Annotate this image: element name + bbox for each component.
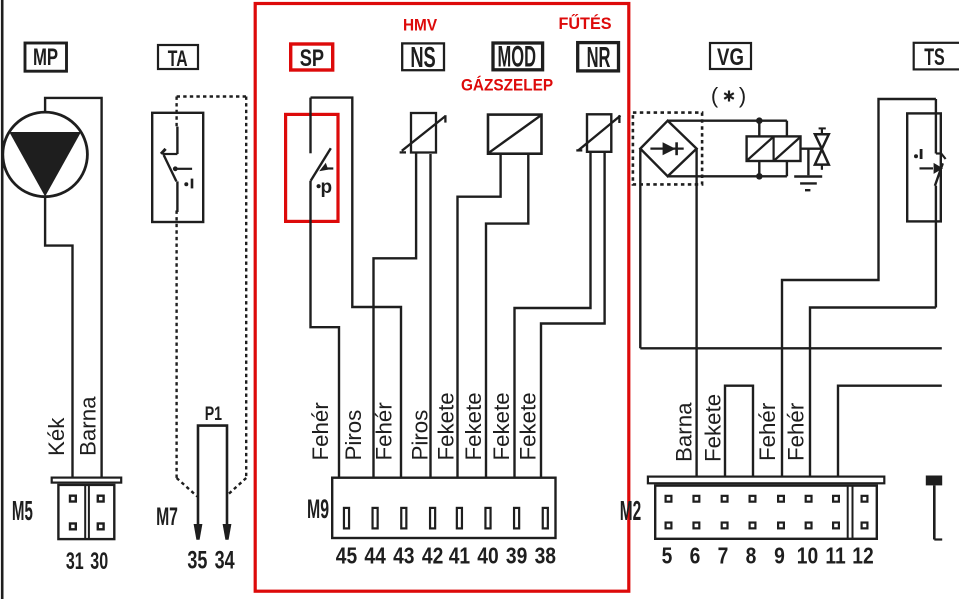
svg-text:Fekete: Fekete: [489, 392, 514, 460]
wire SP bottom to pin 45: [311, 181, 340, 477]
pump MP rotor triangle: [9, 132, 81, 197]
svg-text:9: 9: [774, 543, 785, 569]
stub bottom end to coil: [786, 162, 788, 177]
dashed boundary TA left funnel: [177, 478, 198, 497]
svg-text:Fehér: Fehér: [784, 402, 809, 461]
red frame around SP/NS/MOD/NR: [255, 4, 629, 592]
terminal cap (bottom right): [926, 476, 942, 486]
svg-text:7: 7: [718, 543, 729, 569]
svg-text:Fekete: Fekete: [515, 392, 540, 460]
connector M2 contact r2p7: [722, 523, 728, 529]
sensor NS body: [411, 113, 436, 153]
svg-text:P1: P1: [205, 403, 222, 425]
probe P1 bracket: [198, 426, 227, 527]
switch TS actuator line: [920, 167, 934, 169]
ground stub: [807, 149, 809, 176]
connector M9 body: [332, 478, 555, 538]
valve bottom triangle: [815, 149, 829, 164]
caption (*) star: [728, 91, 730, 102]
switch TS actuator arrowhead: [934, 163, 943, 174]
svg-text:Fekete: Fekete: [461, 392, 486, 460]
sensor NR diagonal tick: [618, 115, 620, 123]
svg-text:Kék: Kék: [44, 417, 69, 456]
terminal stem: [933, 485, 936, 539]
ground bar 1: [794, 175, 822, 178]
connector M2 contact r2p11: [833, 523, 839, 529]
switch TA pivot dot: [173, 166, 178, 171]
connector M2 contact r1p12: [862, 496, 868, 502]
connector M2 top bar: [648, 477, 884, 484]
connector M2 contact r1p9: [778, 496, 784, 502]
svg-text:M2: M2: [620, 495, 641, 526]
dashed boundary TA right funnel: [228, 478, 246, 495]
switch TA contact tick: [161, 149, 166, 154]
svg-text:43: 43: [393, 543, 414, 569]
svg-text:GÁZSZELEP: GÁZSZELEP: [461, 75, 553, 95]
svg-text:12: 12: [852, 543, 873, 569]
switch TA housing: [152, 113, 203, 222]
connector M2 contact r2p8: [750, 523, 756, 529]
svg-text:p: p: [320, 177, 332, 198]
svg-text:Piros: Piros: [341, 410, 366, 461]
connector M5 body: [58, 485, 114, 539]
switch TS mark bar: [920, 149, 923, 159]
diode line: [650, 148, 683, 150]
svg-text:NR: NR: [587, 42, 611, 74]
diode triangle: [663, 142, 676, 155]
junction dot top: [756, 117, 763, 124]
wire SP top run: [311, 98, 402, 477]
wire NS left to pin 44: [374, 153, 417, 477]
connector M2 contact r2p10: [806, 523, 812, 529]
svg-text:5: 5: [662, 543, 673, 569]
switch TS top terminal: [935, 99, 937, 154]
svg-text:31: 31: [66, 549, 84, 575]
wire TS left leg: [782, 99, 936, 477]
terminal foot: [934, 538, 942, 540]
label box NS: [402, 43, 444, 70]
connector M2 contact r1p10: [806, 496, 812, 502]
connector M9 slot 38: [543, 508, 548, 529]
wire pump bottom (Kek) to M5: [45, 196, 72, 478]
svg-text:44: 44: [364, 543, 385, 569]
valve stem bottom: [821, 165, 823, 170]
svg-text:6: 6: [690, 543, 701, 569]
wire NR right to pin 38: [541, 153, 605, 477]
connector M5 contact 30a: [98, 496, 104, 502]
wire jumper pins 7-8: [725, 386, 753, 477]
svg-text:SP: SP: [300, 44, 324, 71]
svg-text:34: 34: [215, 546, 235, 575]
wire VG left corner down: [639, 149, 641, 349]
connector M2 contact r2p12: [862, 523, 868, 529]
wire NR left to pin 39: [515, 153, 591, 477]
connector M5 top bar: [52, 478, 122, 483]
dashed boundary TA left lower: [175, 211, 177, 479]
coil divider: [772, 136, 774, 161]
label box NR: [578, 43, 619, 71]
probe arrowhead 35: [194, 524, 203, 540]
connector M2 contact r1p7: [722, 496, 728, 502]
svg-text:11: 11: [825, 543, 845, 569]
svg-text:41: 41: [449, 543, 470, 569]
wire VG top rail: [668, 119, 787, 121]
switch TA mark dot: [184, 182, 188, 186]
sensor NR diagonal: [578, 116, 621, 151]
connector M2 contact r1p6: [694, 496, 700, 502]
junction dot bottom: [756, 173, 763, 180]
coil diagonal left: [748, 138, 773, 161]
svg-text:TA: TA: [168, 46, 188, 71]
dashed boundary TA top: [177, 95, 247, 97]
coil diagonal right: [775, 138, 800, 161]
svg-text:M7: M7: [156, 503, 178, 531]
switch TA mark bar: [191, 179, 194, 189]
switch TS fixed contact jog: [936, 152, 942, 154]
connector M2 contact r2p9: [778, 523, 784, 529]
coil box: [747, 136, 801, 161]
connector M9 slot 45: [344, 508, 349, 529]
connector M9 slot 43: [401, 508, 406, 529]
switch SP blade: [311, 148, 331, 180]
wire from right edge to pin 11: [838, 386, 942, 477]
switch TS blade: [935, 163, 943, 186]
modulator MOD diagonal: [488, 115, 541, 153]
switch TS housing: [907, 113, 941, 221]
switch TS bottom terminal: [935, 186, 937, 308]
connector M2 contact r1p11: [833, 496, 839, 502]
wire TS right leg to pin 10: [810, 308, 936, 478]
rectifier VG diamond: [640, 121, 696, 177]
switch SP actuator arrowhead: [319, 163, 328, 172]
connector M9 slot 44: [373, 508, 378, 529]
label box VG: [710, 43, 751, 69]
switch TA actuator line: [177, 168, 192, 170]
ground bar 2: [800, 182, 817, 184]
connector M2 body: [655, 486, 877, 539]
dashed boundary TA left upper: [175, 97, 177, 128]
switch TA blade: [164, 155, 177, 181]
connector M9 slot 39: [514, 508, 519, 529]
stub top dot to coil: [758, 121, 760, 136]
svg-text:Fekete: Fekete: [701, 394, 726, 462]
wire MOD left to pin 41: [458, 154, 501, 477]
label box MP: [25, 43, 67, 71]
label box TA: [158, 45, 198, 69]
stub bottom dot to coil: [758, 162, 760, 177]
wire VG right corner to pin 6: [695, 149, 697, 477]
svg-text:Barna: Barna: [672, 402, 697, 462]
label box TS: [914, 43, 959, 70]
label box SP (red): [291, 44, 333, 70]
sensor NS diagonal foot: [400, 151, 406, 153]
wire coil to valve: [801, 147, 822, 149]
sensor NS diagonal: [402, 116, 446, 151]
connector M5 contact 30b: [98, 524, 104, 530]
connector M9 slot 42: [430, 508, 435, 529]
switch SP mark dot: [317, 184, 321, 188]
connector M9 slot 40: [485, 508, 490, 529]
svg-text:NS: NS: [410, 42, 435, 74]
svg-text:M9: M9: [307, 494, 329, 524]
switch SP top terminal: [309, 98, 311, 154]
connector M2 contact r1p8: [750, 496, 756, 502]
svg-text:42: 42: [422, 543, 443, 569]
pump MP circle: [3, 112, 88, 197]
connector M2 contact r2p5: [666, 523, 672, 529]
switch TS mark dot: [914, 154, 918, 158]
switch SP actuator line: [322, 167, 333, 169]
svg-text:(: (: [711, 83, 719, 108]
wire NS right to pin 42: [429, 154, 431, 477]
svg-text:Fehér: Fehér: [372, 402, 397, 461]
svg-text:39: 39: [506, 543, 527, 569]
svg-text:45: 45: [336, 543, 357, 569]
valve stem top: [821, 128, 823, 134]
connector M5 contact 31b: [70, 524, 76, 530]
wire pump top to Barna column: [45, 98, 102, 477]
switch TA bottom terminal: [176, 181, 178, 212]
probe arrowhead 34: [223, 524, 232, 540]
svg-text:35: 35: [187, 546, 207, 575]
sensor NR diagonal foot: [576, 149, 582, 151]
svg-text:30: 30: [90, 549, 108, 575]
svg-text:Fehér: Fehér: [755, 402, 780, 461]
svg-text:HMV: HMV: [403, 16, 437, 35]
svg-text:MOD: MOD: [498, 40, 536, 73]
connector M2 contact r1p5: [666, 496, 672, 502]
svg-text:): ): [739, 83, 746, 108]
switch TA fixed contact jog: [163, 153, 178, 155]
modulator MOD body: [488, 115, 542, 154]
sensor NS diagonal tick: [444, 115, 446, 122]
svg-text:TS: TS: [924, 45, 945, 71]
diode cathode bar: [675, 142, 678, 155]
svg-text:10: 10: [797, 543, 818, 569]
svg-text:Barna: Barna: [75, 396, 100, 456]
sensor NR body: [587, 114, 611, 152]
wire MOD right to pin 40: [486, 154, 528, 477]
svg-text:38: 38: [535, 543, 556, 569]
wire long horizontal right: [640, 347, 942, 349]
switch TS contact tick: [941, 154, 945, 160]
dashed boundary TA right: [245, 97, 247, 479]
svg-text:40: 40: [477, 543, 498, 569]
svg-text:Fekete: Fekete: [434, 392, 459, 460]
valve top triangle: [815, 134, 829, 149]
dashed box VG: [633, 113, 702, 185]
svg-text:VG: VG: [717, 44, 744, 71]
svg-text:Fehér: Fehér: [308, 402, 333, 461]
svg-text:8: 8: [746, 543, 757, 569]
label box MOD: [493, 43, 543, 70]
stub top end to coil: [786, 121, 788, 136]
connector M9 slot 41: [457, 508, 462, 529]
svg-text:FŰTÉS: FŰTÉS: [558, 14, 611, 33]
svg-text:M5: M5: [12, 495, 33, 526]
connector M5 contact 31a: [70, 496, 76, 502]
svg-text:Piros: Piros: [407, 410, 432, 461]
switch SP red housing: [286, 114, 338, 221]
connector M5 divider: [84, 485, 86, 539]
ground bar 3: [805, 189, 810, 191]
switch TA top terminal: [176, 127, 178, 154]
svg-text:MP: MP: [33, 44, 58, 71]
wire VG bottom rail: [668, 175, 787, 177]
connector M2 contact r2p6: [694, 523, 700, 529]
connector M2 divider: [847, 486, 849, 539]
